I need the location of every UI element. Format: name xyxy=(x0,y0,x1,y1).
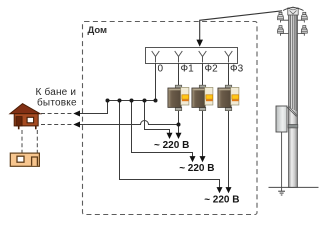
svg-text:~ 220 В: ~ 220 В xyxy=(179,163,214,174)
svg-text:Ф2: Ф2 xyxy=(205,64,219,75)
svg-text:бытовке: бытовке xyxy=(37,96,77,108)
svg-text:Ф3: Ф3 xyxy=(230,64,244,75)
svg-text:~ 220 В: ~ 220 В xyxy=(154,140,189,151)
svg-text:К бане и: К бане и xyxy=(36,86,77,98)
svg-text:Ф1: Ф1 xyxy=(181,64,195,75)
svg-text:Дом: Дом xyxy=(88,25,108,36)
svg-text:0: 0 xyxy=(158,64,164,75)
svg-text:~ 220 В: ~ 220 В xyxy=(204,195,239,206)
